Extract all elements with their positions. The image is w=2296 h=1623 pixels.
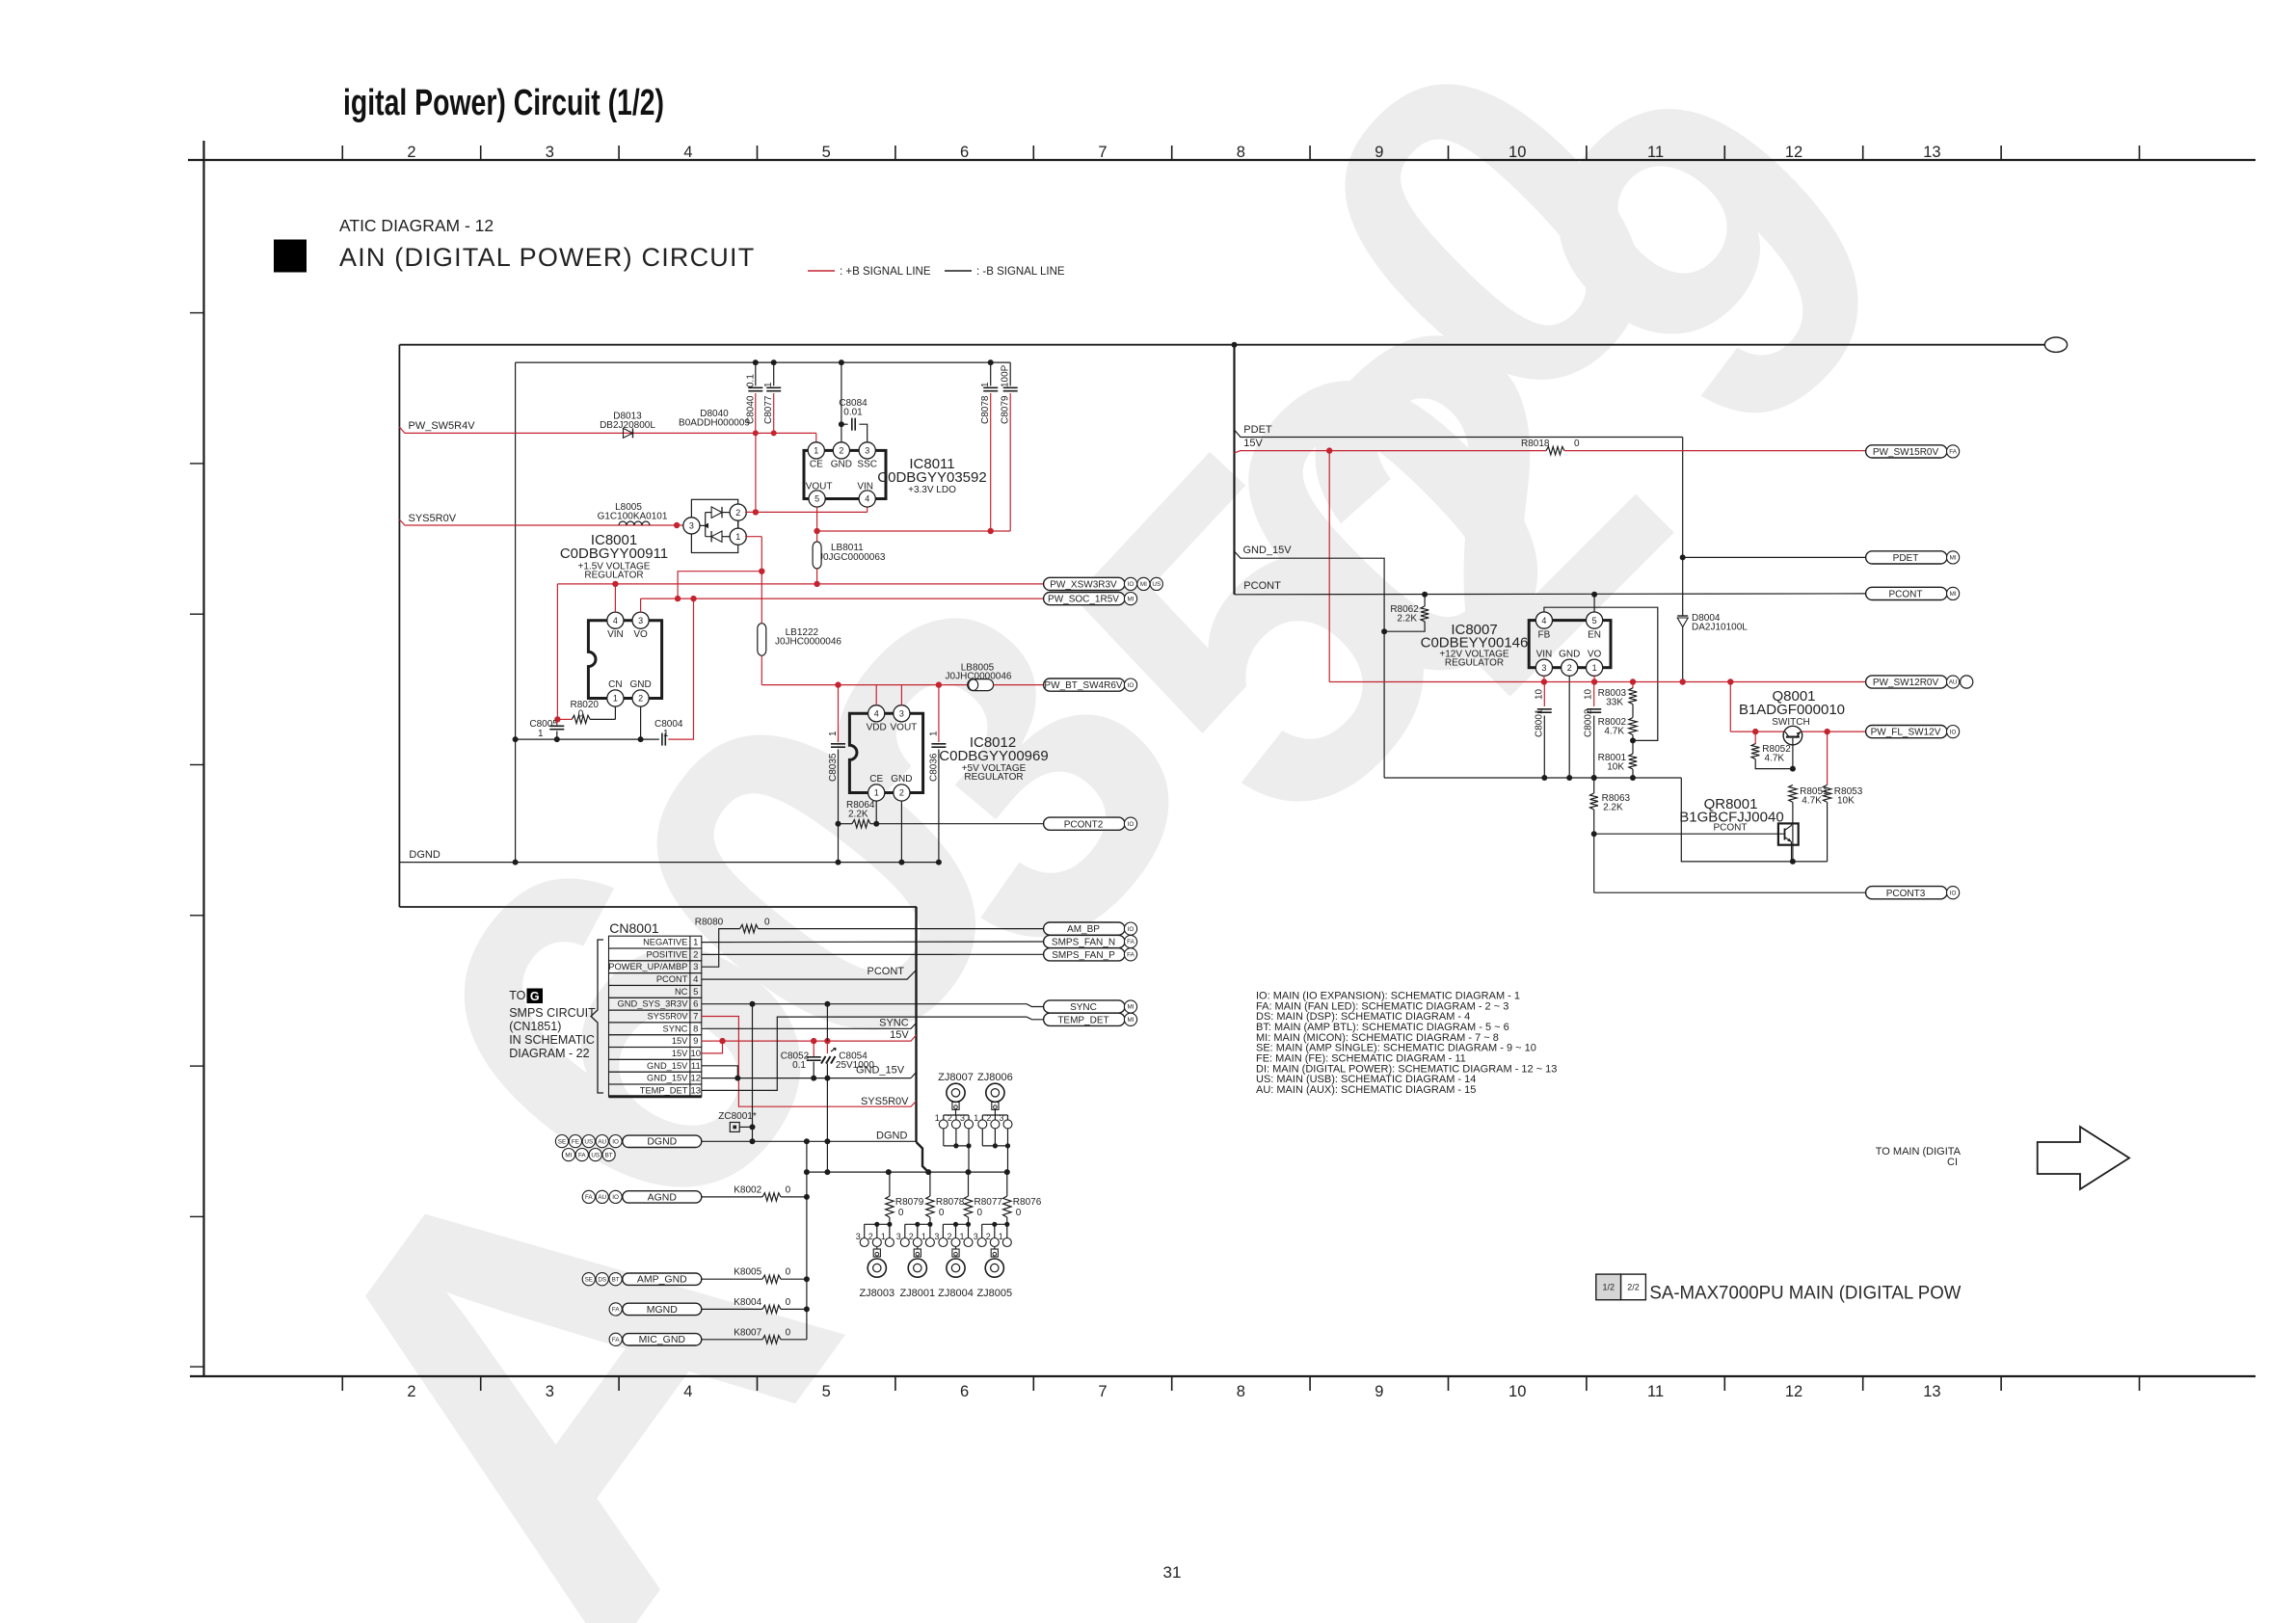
svg-text:BT: BT (612, 1276, 620, 1283)
svg-text:4: 4 (693, 974, 698, 985)
svg-text:10: 10 (1534, 688, 1544, 700)
svg-text:PCONT2: PCONT2 (1064, 819, 1104, 830)
svg-text:3: 3 (974, 1232, 978, 1241)
svg-text:1: 1 (935, 1113, 940, 1123)
svg-text:AU: MAIN (AUX): SCHEMATIC DIAG: AU: MAIN (AUX): SCHEMATIC DIAGRAM - 15 (1256, 1084, 1476, 1096)
svg-text:10: 10 (1508, 144, 1526, 161)
svg-text:2: 2 (868, 1232, 873, 1241)
svg-text:VDD: VDD (867, 723, 887, 733)
svg-text:TEMP_DET: TEMP_DET (1057, 1015, 1108, 1025)
svg-text:10: 10 (1508, 1383, 1526, 1400)
svg-text:5: 5 (693, 987, 698, 998)
svg-text:5: 5 (1592, 616, 1597, 625)
svg-text:SSC: SSC (857, 460, 877, 470)
svg-text:FA: FA (585, 1194, 593, 1201)
svg-text:6: 6 (960, 1383, 969, 1400)
svg-text:1: 1 (693, 938, 698, 948)
svg-text:2: 2 (986, 1232, 991, 1241)
svg-text:10K: 10K (1607, 762, 1624, 773)
svg-text:3: 3 (693, 962, 698, 972)
svg-text:DGND: DGND (647, 1136, 677, 1148)
svg-text:AU: AU (598, 1138, 606, 1145)
svg-text:ZJ8005: ZJ8005 (976, 1288, 1012, 1299)
svg-text:TO: TO (509, 989, 525, 1002)
svg-text:PW_SW12R0V: PW_SW12R0V (1873, 678, 1939, 688)
svg-text:SMPS CIRCUIT: SMPS CIRCUIT (509, 1006, 596, 1020)
svg-text:MI: MI (1128, 1017, 1135, 1024)
svg-text:SE: SE (558, 1138, 566, 1145)
svg-text:3: 3 (546, 1383, 554, 1400)
svg-text:SYS5R0V: SYS5R0V (409, 513, 457, 524)
svg-text:5: 5 (822, 1383, 831, 1400)
svg-text:13: 13 (1923, 144, 1940, 161)
svg-text:PW_XSW3R3V: PW_XSW3R3V (1050, 580, 1117, 591)
svg-text:PCONT: PCONT (1889, 590, 1923, 600)
svg-text:ZJ8007: ZJ8007 (938, 1072, 974, 1083)
svg-text:15V: 15V (1243, 438, 1263, 449)
svg-text:PCONT: PCONT (1714, 823, 1748, 834)
svg-text:ZJ8006: ZJ8006 (977, 1072, 1013, 1083)
svg-text:PDET: PDET (1893, 553, 1919, 564)
svg-text:9: 9 (1375, 1383, 1383, 1400)
svg-text:1: 1 (974, 1113, 978, 1123)
svg-text:ZJ8003: ZJ8003 (859, 1288, 894, 1299)
svg-text:3: 3 (960, 1113, 965, 1123)
svg-text:J0JHC0000046: J0JHC0000046 (775, 637, 841, 648)
svg-text:0: 0 (1016, 1208, 1022, 1218)
svg-text:2.2K: 2.2K (1397, 614, 1417, 625)
svg-text:J0JHC0000046: J0JHC0000046 (946, 672, 1012, 682)
svg-text:G: G (530, 990, 540, 1003)
svg-text:1: 1 (735, 532, 740, 542)
svg-text:TEMP_DET: TEMP_DET (640, 1085, 688, 1095)
svg-text:VIN: VIN (607, 629, 624, 640)
svg-text:FB: FB (1538, 630, 1551, 641)
svg-text:AM_BP: AM_BP (1067, 924, 1100, 935)
svg-text:ZJ8004: ZJ8004 (938, 1288, 974, 1299)
svg-text:0: 0 (786, 1184, 791, 1195)
svg-text:1: 1 (763, 382, 774, 387)
svg-text:GND: GND (629, 679, 651, 690)
svg-text:PW_SW15R0V: PW_SW15R0V (1873, 447, 1939, 458)
svg-text:AU: AU (598, 1194, 606, 1201)
svg-text:3: 3 (865, 446, 869, 456)
svg-text:SYS5R0V: SYS5R0V (861, 1096, 909, 1107)
svg-text:AIN (DIGITAL POWER) CIRCUIT: AIN (DIGITAL POWER) CIRCUIT (339, 243, 755, 272)
svg-text:C0DBGYY03592: C0DBGYY03592 (877, 469, 986, 486)
svg-text:9: 9 (693, 1036, 698, 1047)
svg-text:R8018: R8018 (1521, 439, 1550, 449)
svg-text:4.7K: 4.7K (1765, 754, 1785, 764)
svg-text:6: 6 (693, 999, 698, 1010)
svg-text:K8007: K8007 (734, 1327, 761, 1338)
svg-text:J0JGC0000063: J0JGC0000063 (818, 552, 886, 563)
svg-text:R8078: R8078 (936, 1197, 965, 1208)
svg-text:BT: BT (605, 1152, 613, 1158)
svg-text:4: 4 (683, 144, 692, 161)
svg-text:VO: VO (1588, 650, 1602, 660)
svg-text:4: 4 (1541, 616, 1546, 625)
svg-text:C0DBGYY00969: C0DBGYY00969 (939, 748, 1048, 764)
svg-text:REGULATOR: REGULATOR (1445, 658, 1504, 669)
svg-text:C8078: C8078 (980, 395, 991, 424)
svg-text:2: 2 (947, 1232, 951, 1241)
svg-text:2: 2 (735, 508, 740, 518)
svg-text:2.2K: 2.2K (848, 810, 868, 820)
svg-text:1: 1 (921, 1232, 926, 1241)
svg-text:DB2J20800L: DB2J20800L (600, 420, 655, 431)
svg-text:MI: MI (565, 1152, 572, 1158)
svg-text:SYNC: SYNC (663, 1024, 688, 1033)
svg-text:US: US (584, 1138, 593, 1145)
svg-text:12: 12 (1785, 144, 1802, 161)
svg-text:2: 2 (899, 788, 904, 798)
svg-text:2: 2 (1567, 663, 1572, 673)
svg-text:PCONT: PCONT (656, 974, 688, 984)
svg-text:ZJ8001: ZJ8001 (899, 1288, 935, 1299)
svg-text:DGND: DGND (409, 849, 440, 861)
svg-text:G1C100KA0101: G1C100KA0101 (598, 511, 668, 521)
svg-text:31: 31 (1163, 1563, 1182, 1582)
svg-text:(CN1851): (CN1851) (509, 1020, 561, 1033)
svg-text:0: 0 (898, 1208, 904, 1218)
svg-text:0.1: 0.1 (792, 1060, 806, 1071)
svg-text:FA: FA (1949, 449, 1957, 456)
svg-text:C8036: C8036 (928, 753, 939, 782)
svg-text:AU: AU (1949, 679, 1958, 686)
svg-text:GND_15V: GND_15V (1243, 545, 1293, 556)
svg-text:SYS5R0V: SYS5R0V (648, 1012, 689, 1022)
svg-text:25V1000: 25V1000 (836, 1060, 874, 1071)
svg-text:PW_SW5R4V: PW_SW5R4V (409, 420, 476, 432)
svg-text:K8002: K8002 (734, 1184, 761, 1195)
svg-text:IO: IO (1128, 926, 1135, 933)
svg-text:GND_SYS_3R3V: GND_SYS_3R3V (618, 999, 689, 1009)
svg-text:10: 10 (691, 1049, 702, 1059)
svg-text:MI: MI (1950, 591, 1957, 598)
svg-text:1: 1 (1592, 663, 1597, 673)
svg-text:1: 1 (814, 446, 818, 456)
svg-text:POSITIVE: POSITIVE (647, 949, 688, 959)
svg-text:GND_15V: GND_15V (647, 1074, 688, 1083)
svg-text:8: 8 (1237, 144, 1245, 161)
svg-text:2.2K: 2.2K (1603, 803, 1623, 813)
svg-text:2: 2 (638, 694, 643, 704)
svg-text:12: 12 (1785, 1383, 1802, 1400)
svg-text:3: 3 (856, 1232, 861, 1241)
svg-text:POWER_UP/AMBP: POWER_UP/AMBP (608, 962, 687, 971)
svg-text:SMPS_FAN_N: SMPS_FAN_N (1052, 938, 1115, 948)
svg-text:10K: 10K (1837, 796, 1855, 807)
svg-text:12: 12 (691, 1074, 702, 1084)
svg-text:MI: MI (1950, 555, 1957, 562)
svg-text:FE: FE (572, 1138, 579, 1145)
svg-text:MI: MI (1140, 581, 1147, 588)
svg-text:FA: FA (612, 1337, 620, 1344)
svg-text:4.7K: 4.7K (1604, 727, 1624, 737)
svg-text:: -B SIGNAL LINE: : -B SIGNAL LINE (976, 266, 1065, 278)
svg-text:0: 0 (786, 1327, 791, 1338)
svg-text:10: 10 (1584, 688, 1594, 700)
svg-text:3: 3 (899, 709, 904, 719)
svg-text:PCONT: PCONT (868, 966, 905, 977)
svg-text:SMPS_FAN_P: SMPS_FAN_P (1052, 950, 1115, 961)
svg-text:PCONT: PCONT (1243, 580, 1281, 592)
svg-text:2: 2 (948, 1113, 952, 1123)
svg-text:GND: GND (891, 774, 912, 785)
svg-text:DGND: DGND (876, 1131, 907, 1142)
svg-text:VIN: VIN (1536, 650, 1553, 660)
svg-text:0: 0 (786, 1297, 791, 1308)
svg-text:C8002: C8002 (1584, 708, 1594, 737)
svg-text:1: 1 (928, 731, 939, 736)
svg-text:5: 5 (814, 494, 819, 504)
svg-text:IO: IO (1128, 821, 1135, 828)
svg-text:4: 4 (874, 709, 879, 719)
svg-text:PW_SOC_1R5V: PW_SOC_1R5V (1048, 595, 1119, 605)
svg-text:2: 2 (407, 1383, 415, 1400)
svg-text:SA-MAX7000PU MAIN (DIGITAL POW: SA-MAX7000PU MAIN (DIGITAL POW (1649, 1282, 1962, 1303)
svg-text:B0ADDH000009: B0ADDH000009 (679, 418, 750, 429)
svg-text:R8077: R8077 (974, 1197, 1003, 1208)
svg-text:US: US (1152, 581, 1161, 588)
svg-text:igital Power) Circuit (1/2): igital Power) Circuit (1/2) (343, 83, 664, 123)
svg-text:PDET: PDET (1243, 424, 1272, 436)
svg-text:0: 0 (764, 918, 770, 928)
svg-text:CN: CN (608, 679, 622, 690)
svg-text:11: 11 (691, 1061, 701, 1072)
svg-text:3: 3 (689, 521, 694, 531)
svg-text:NEGATIVE: NEGATIVE (643, 938, 687, 947)
svg-text:2: 2 (909, 1232, 914, 1241)
svg-text:DIAGRAM - 22: DIAGRAM - 22 (509, 1047, 589, 1060)
svg-text:1: 1 (980, 382, 991, 387)
svg-text:EN: EN (1588, 630, 1601, 641)
svg-text:1/2: 1/2 (1602, 1283, 1615, 1292)
svg-text:MGND: MGND (647, 1304, 678, 1316)
svg-text:2: 2 (693, 949, 698, 960)
svg-text:IO: IO (612, 1138, 619, 1145)
svg-text:PCONT3: PCONT3 (1886, 889, 1926, 899)
svg-text:1: 1 (613, 694, 618, 704)
svg-text:US: US (591, 1152, 600, 1158)
svg-text:0: 0 (977, 1208, 983, 1218)
svg-text:C0DBGYY00911: C0DBGYY00911 (560, 545, 668, 562)
svg-text:SE: SE (585, 1276, 593, 1283)
svg-text:SYNC: SYNC (879, 1018, 909, 1029)
svg-text:15V: 15V (672, 1049, 688, 1058)
svg-text:13: 13 (691, 1085, 702, 1096)
svg-text:FA: FA (1127, 952, 1135, 959)
svg-text:8: 8 (693, 1024, 698, 1034)
svg-text:VIN: VIN (857, 482, 873, 492)
svg-text:3: 3 (546, 144, 554, 161)
svg-text:0.01: 0.01 (843, 408, 863, 418)
svg-text:IO: IO (1128, 682, 1135, 689)
svg-text:0.1: 0.1 (745, 374, 756, 387)
svg-text:PW_FL_SW12V: PW_FL_SW12V (1871, 728, 1941, 738)
svg-text:IO: IO (1950, 729, 1957, 735)
svg-text:IO: IO (1128, 581, 1135, 588)
svg-text:11: 11 (1647, 144, 1664, 161)
svg-text:REGULATOR: REGULATOR (964, 772, 1023, 783)
svg-text:MI: MI (1128, 1004, 1135, 1011)
svg-text:6: 6 (960, 144, 969, 161)
svg-text:C8079: C8079 (1001, 395, 1011, 424)
svg-text:0: 0 (939, 1208, 945, 1218)
svg-text:2: 2 (407, 144, 415, 161)
svg-text:2/2: 2/2 (1627, 1283, 1640, 1292)
svg-text:C8004: C8004 (654, 719, 683, 730)
svg-text:CN8001: CN8001 (609, 920, 659, 936)
svg-text:IN SCHEMATIC: IN SCHEMATIC (509, 1033, 595, 1047)
svg-text:R8020: R8020 (571, 700, 600, 710)
svg-text:GND: GND (831, 460, 852, 470)
svg-text:+3.3V LDO: +3.3V LDO (908, 485, 956, 495)
svg-text:15V: 15V (890, 1029, 909, 1041)
svg-text:1: 1 (959, 1232, 964, 1241)
svg-text:100P: 100P (1001, 364, 1011, 387)
svg-text:1: 1 (874, 788, 879, 798)
svg-text:11: 11 (1647, 1383, 1664, 1400)
svg-text:CI: CI (1947, 1157, 1958, 1168)
svg-text:CE: CE (810, 460, 823, 470)
svg-text:GND: GND (1559, 650, 1580, 660)
svg-text:7: 7 (693, 1012, 698, 1023)
svg-text:REGULATOR: REGULATOR (584, 571, 643, 581)
svg-text:R8076: R8076 (1013, 1197, 1042, 1208)
svg-text:ZC8001*: ZC8001* (718, 1111, 757, 1122)
svg-text:C8001: C8001 (1534, 708, 1544, 737)
svg-text:FA: FA (1127, 939, 1135, 945)
svg-text:NC: NC (675, 987, 688, 997)
svg-text:1: 1 (538, 729, 544, 739)
svg-text:4: 4 (613, 616, 618, 625)
svg-text:FA: FA (612, 1307, 620, 1314)
svg-text:PW_BT_SW4R6V: PW_BT_SW4R6V (1044, 680, 1122, 691)
svg-text:3: 3 (934, 1232, 939, 1241)
svg-text:2: 2 (986, 1113, 991, 1123)
svg-text:33K: 33K (1606, 698, 1623, 708)
svg-text:K8004: K8004 (734, 1297, 761, 1308)
svg-text:CE: CE (869, 774, 883, 785)
svg-text:AGND: AGND (648, 1191, 678, 1203)
svg-text:MIC_GND: MIC_GND (639, 1334, 686, 1345)
svg-text:DA2J10100L: DA2J10100L (1692, 623, 1748, 633)
svg-text:3: 3 (638, 616, 643, 625)
svg-text:1: 1 (828, 731, 839, 736)
svg-text:8: 8 (1237, 1383, 1245, 1400)
svg-text:IO: IO (1950, 890, 1957, 896)
svg-text:4: 4 (865, 494, 869, 504)
svg-text:IO: IO (612, 1194, 619, 1201)
svg-text:3: 3 (999, 1113, 1003, 1123)
svg-text:C8005: C8005 (529, 719, 558, 730)
svg-text:R8080: R8080 (695, 918, 724, 928)
svg-text:VO: VO (633, 629, 648, 640)
svg-text:FA: FA (578, 1152, 586, 1158)
svg-text:15V: 15V (672, 1036, 688, 1046)
svg-text:13: 13 (1923, 1383, 1940, 1400)
svg-text:0: 0 (1574, 439, 1580, 449)
svg-text:MI: MI (1128, 596, 1135, 602)
svg-text:4.7K: 4.7K (1802, 796, 1822, 807)
svg-text:SYNC: SYNC (1070, 1002, 1097, 1013)
svg-text:4: 4 (683, 1383, 692, 1400)
svg-text:5: 5 (822, 144, 831, 161)
svg-text:AMP_GND: AMP_GND (637, 1274, 687, 1286)
svg-text:C8035: C8035 (828, 753, 839, 782)
svg-text:1: 1 (881, 1232, 886, 1241)
svg-text:2: 2 (839, 446, 843, 456)
svg-text:ATIC DIAGRAM - 12: ATIC DIAGRAM - 12 (339, 216, 494, 235)
svg-text:B1ADGF000010: B1ADGF000010 (1739, 702, 1845, 718)
svg-text:1: 1 (999, 1232, 1003, 1241)
svg-text:0: 0 (786, 1267, 791, 1278)
svg-text:: +B SIGNAL LINE: : +B SIGNAL LINE (840, 266, 931, 278)
svg-text:7: 7 (1098, 1383, 1107, 1400)
svg-text:9: 9 (1375, 144, 1383, 161)
svg-text:3: 3 (896, 1232, 901, 1241)
svg-text:R8079: R8079 (895, 1197, 924, 1208)
svg-text:VOUT: VOUT (891, 723, 918, 733)
svg-text:DS: DS (598, 1276, 606, 1283)
svg-text:C8077: C8077 (763, 395, 774, 424)
svg-text:GND_15V: GND_15V (647, 1061, 688, 1071)
svg-text:K8005: K8005 (734, 1267, 761, 1278)
svg-text:7: 7 (1098, 144, 1107, 161)
svg-text:VOUT: VOUT (806, 482, 833, 492)
svg-text:3: 3 (1541, 663, 1546, 673)
